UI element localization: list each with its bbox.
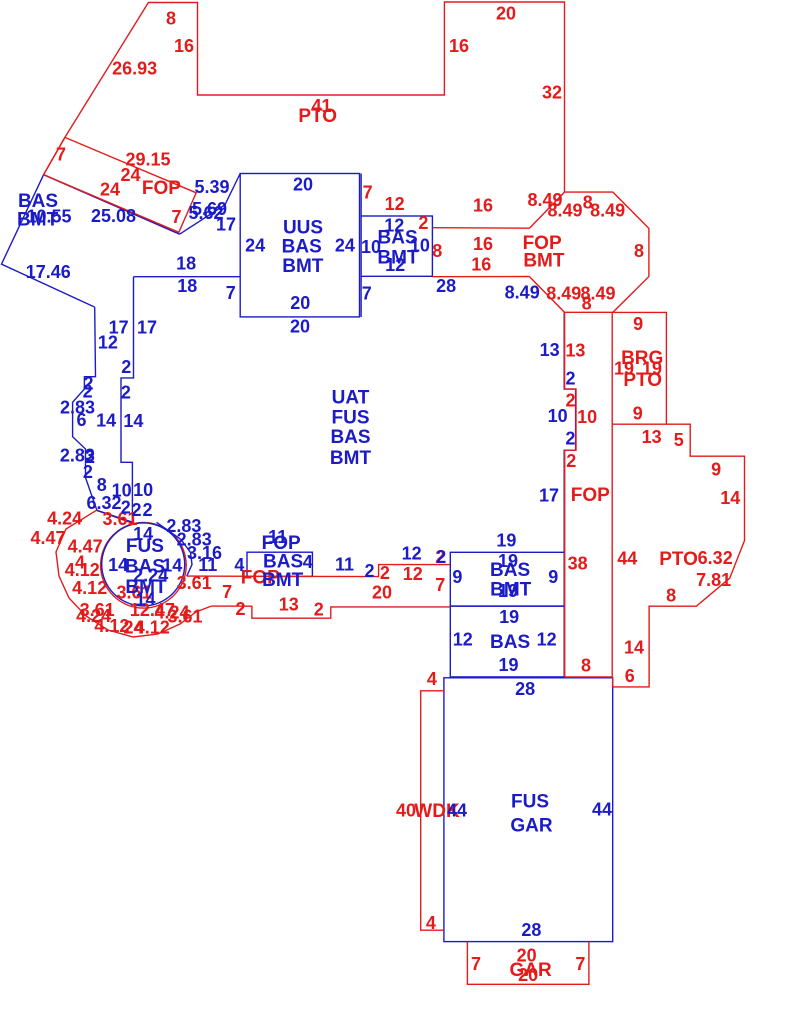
- svg-text:4.47: 4.47: [30, 528, 65, 548]
- svg-text:7: 7: [171, 207, 181, 227]
- red diagonal at turret top-left: [97, 510, 133, 523]
- svg-text:2: 2: [121, 383, 131, 403]
- svg-text:25.08: 25.08: [91, 206, 136, 226]
- wood deck WDK strip: [421, 691, 444, 930]
- svg-text:12: 12: [402, 543, 422, 563]
- svg-text:2: 2: [566, 451, 576, 471]
- corridor middle lower red line with notch: [211, 606, 450, 618]
- svg-text:18: 18: [176, 253, 196, 273]
- red blob outline around turret: [56, 510, 211, 637]
- FOP strip right edge (44 line): [611, 312, 613, 677]
- svg-text:13: 13: [642, 427, 662, 447]
- svg-text:13: 13: [565, 341, 585, 361]
- svg-text:24: 24: [335, 235, 355, 255]
- svg-text:2: 2: [565, 369, 575, 389]
- svg-text:6: 6: [625, 666, 635, 686]
- svg-text:BAS: BAS: [330, 427, 370, 448]
- main outline 18 edge: [134, 276, 241, 278]
- svg-text:6.32: 6.32: [698, 548, 733, 568]
- porch FOP rotated rectangle top-left: [44, 137, 197, 232]
- vertical above small rect: [360, 174, 362, 217]
- octagon FOP BMT: [529, 192, 649, 312]
- svg-text:10: 10: [548, 406, 568, 426]
- svg-text:44: 44: [447, 801, 467, 821]
- main outline inner-left path: [121, 277, 134, 523]
- svg-text:28: 28: [436, 276, 456, 296]
- svg-text:BAS: BAS: [378, 228, 418, 249]
- svg-text:16: 16: [449, 36, 469, 56]
- svg-text:BMT: BMT: [330, 448, 372, 469]
- svg-text:7: 7: [471, 954, 481, 974]
- FOP strip bottom edge: [565, 676, 613, 678]
- svg-text:FUS: FUS: [511, 792, 549, 813]
- svg-text:8: 8: [97, 475, 107, 495]
- svg-text:2: 2: [565, 429, 575, 449]
- BAS BMT middle rectangle: [450, 552, 564, 606]
- svg-text:BAS: BAS: [490, 560, 530, 581]
- svg-text:4.24: 4.24: [47, 509, 82, 529]
- BRG PTO rectangle: [612, 312, 666, 424]
- turret circle FUS BAS BMT: [102, 523, 185, 606]
- main outline right path along FOP strip: [564, 313, 575, 553]
- svg-text:19: 19: [498, 655, 518, 675]
- svg-text:7.81: 7.81: [696, 570, 731, 590]
- svg-text:8: 8: [166, 9, 176, 29]
- svg-text:20: 20: [496, 4, 516, 24]
- svg-text:14: 14: [135, 590, 155, 610]
- svg-text:19: 19: [499, 607, 519, 627]
- svg-text:8: 8: [634, 241, 644, 261]
- svg-text:8: 8: [581, 656, 591, 676]
- diagonal 6.32 at turret top-left: [97, 510, 132, 522]
- svg-text:7: 7: [575, 954, 585, 974]
- svg-text:16: 16: [174, 36, 194, 56]
- svg-text:7: 7: [56, 145, 66, 165]
- svg-text:11: 11: [198, 555, 217, 575]
- svg-text:13: 13: [540, 340, 560, 360]
- svg-text:16: 16: [473, 234, 493, 254]
- svg-text:2: 2: [436, 547, 446, 567]
- svg-text:20: 20: [290, 293, 310, 313]
- svg-text:16: 16: [473, 196, 493, 216]
- svg-text:4.12: 4.12: [72, 578, 107, 598]
- svg-text:BAS: BAS: [490, 632, 530, 653]
- main outline diagonals to UUS corner: [180, 174, 241, 235]
- svg-text:3.61: 3.61: [177, 573, 212, 593]
- svg-text:24: 24: [120, 165, 140, 185]
- svg-text:4: 4: [303, 552, 313, 572]
- svg-text:13: 13: [279, 594, 299, 614]
- svg-text:20: 20: [290, 317, 310, 337]
- svg-text:20: 20: [518, 965, 538, 985]
- red circle under turret: [101, 523, 187, 609]
- svg-text:5.39: 5.39: [194, 177, 229, 197]
- basement BAS BMT top-left quad: [2, 175, 180, 307]
- svg-text:8.49: 8.49: [590, 200, 625, 220]
- svg-text:BMT: BMT: [282, 256, 324, 277]
- svg-text:18: 18: [177, 276, 197, 296]
- svg-text:38: 38: [568, 553, 588, 573]
- svg-text:PTO: PTO: [659, 549, 698, 570]
- UUS BAS BMT rectangle: [240, 174, 359, 317]
- svg-text:FOP: FOP: [571, 485, 610, 506]
- svg-text:10: 10: [577, 407, 597, 427]
- svg-text:28: 28: [515, 679, 535, 699]
- svg-text:4: 4: [426, 913, 436, 933]
- svg-text:8.49: 8.49: [547, 200, 582, 220]
- svg-text:14: 14: [720, 488, 740, 508]
- corridor to octagon upper line: [432, 227, 529, 230]
- svg-text:24: 24: [100, 179, 120, 199]
- svg-text:2: 2: [83, 462, 93, 482]
- svg-text:8: 8: [432, 241, 442, 261]
- svg-text:19: 19: [498, 581, 518, 601]
- svg-text:12: 12: [385, 255, 405, 275]
- svg-text:FUS: FUS: [332, 408, 370, 429]
- svg-text:17.46: 17.46: [26, 262, 71, 282]
- svg-text:17: 17: [216, 215, 236, 235]
- svg-text:FOP: FOP: [142, 178, 181, 199]
- svg-text:2: 2: [364, 561, 374, 581]
- main outline outer-left path: [73, 307, 97, 510]
- svg-text:7: 7: [226, 283, 236, 303]
- svg-text:5: 5: [674, 430, 684, 450]
- svg-text:17: 17: [137, 318, 157, 338]
- svg-text:14: 14: [624, 638, 644, 658]
- svg-text:19: 19: [496, 530, 516, 550]
- svg-text:10: 10: [133, 480, 153, 500]
- svg-text:2: 2: [121, 357, 131, 377]
- garage GAR rectangle bottom: [467, 942, 589, 985]
- svg-text:3.61: 3.61: [167, 607, 202, 627]
- svg-text:8: 8: [582, 294, 592, 314]
- svg-text:8: 8: [666, 585, 676, 605]
- corridor to octagon lower line: [432, 276, 529, 278]
- svg-text:PTO: PTO: [298, 106, 337, 127]
- svg-text:9: 9: [452, 567, 462, 587]
- svg-text:12: 12: [453, 629, 473, 649]
- FOP strip left edge with jogs: [565, 312, 576, 677]
- svg-text:26.93: 26.93: [112, 59, 157, 79]
- svg-text:4.12: 4.12: [65, 560, 100, 580]
- svg-text:14: 14: [123, 411, 143, 431]
- svg-text:24: 24: [245, 235, 265, 255]
- svg-text:16: 16: [471, 255, 491, 275]
- svg-text:9: 9: [633, 314, 643, 334]
- patio PTO right outline: [613, 424, 745, 687]
- svg-text:14: 14: [96, 411, 116, 431]
- diagonal chain right of turret: [157, 522, 193, 576]
- svg-text:9: 9: [548, 567, 558, 587]
- patio PTO top outline: [44, 2, 565, 192]
- svg-text:7: 7: [222, 582, 232, 602]
- svg-text:BMT: BMT: [523, 251, 565, 272]
- svg-text:44: 44: [617, 548, 637, 568]
- svg-text:44: 44: [592, 800, 612, 820]
- svg-text:10.55: 10.55: [26, 207, 71, 227]
- svg-text:28: 28: [521, 920, 541, 940]
- svg-text:6.32: 6.32: [86, 493, 121, 513]
- svg-text:4: 4: [234, 555, 244, 575]
- svg-text:9: 9: [711, 459, 721, 479]
- svg-text:GAR: GAR: [510, 815, 553, 836]
- svg-text:2: 2: [418, 213, 428, 233]
- small FOP BAS BMT rectangle: [247, 552, 312, 576]
- svg-text:8.49: 8.49: [505, 282, 540, 302]
- garage FUS GAR rectangle: [444, 678, 613, 942]
- svg-text:4.47: 4.47: [68, 537, 103, 557]
- svg-text:17: 17: [539, 486, 559, 506]
- svg-text:40: 40: [396, 801, 416, 821]
- svg-text:6: 6: [76, 410, 86, 430]
- svg-text:4: 4: [427, 669, 437, 689]
- BAS middle rectangle: [450, 606, 564, 677]
- svg-text:12: 12: [385, 194, 405, 214]
- svg-text:2: 2: [131, 500, 141, 520]
- svg-text:BMT: BMT: [262, 570, 304, 591]
- svg-text:12: 12: [403, 564, 423, 584]
- svg-text:BAS: BAS: [282, 236, 322, 257]
- svg-text:9: 9: [633, 403, 643, 423]
- svg-text:12: 12: [537, 629, 557, 649]
- svg-text:PTO: PTO: [623, 370, 662, 391]
- svg-text:2: 2: [380, 563, 390, 583]
- svg-text:8.49: 8.49: [546, 284, 581, 304]
- svg-text:7: 7: [362, 284, 372, 304]
- corridor middle upper red line: [187, 565, 451, 577]
- svg-text:2: 2: [121, 498, 131, 518]
- svg-text:12: 12: [98, 332, 118, 352]
- svg-text:2: 2: [142, 500, 152, 520]
- svg-text:UAT: UAT: [332, 388, 370, 409]
- svg-text:7: 7: [363, 183, 373, 203]
- svg-text:2: 2: [235, 599, 245, 619]
- svg-text:2: 2: [314, 600, 324, 620]
- svg-text:20: 20: [293, 175, 313, 195]
- svg-text:32: 32: [542, 83, 562, 103]
- svg-text:7: 7: [435, 575, 445, 595]
- svg-text:20: 20: [372, 583, 392, 603]
- vertical below small rect: [360, 276, 362, 317]
- svg-text:FUS: FUS: [126, 536, 164, 557]
- small BAS BMT rectangle right of UUS: [361, 216, 432, 276]
- svg-text:11: 11: [335, 555, 354, 575]
